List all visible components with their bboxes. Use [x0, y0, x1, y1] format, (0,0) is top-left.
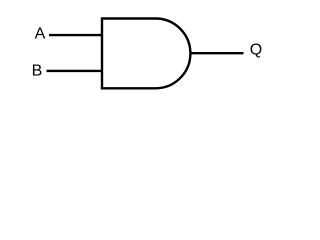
wire input B: [47, 70, 104, 72]
svg-text:B: B: [32, 62, 43, 79]
svg-text:Q: Q: [250, 42, 262, 59]
AND gate U1: [102, 19, 190, 89]
svg-text:A: A: [35, 26, 46, 43]
wire input A: [49, 34, 103, 36]
wire output Q: [190, 52, 243, 54]
